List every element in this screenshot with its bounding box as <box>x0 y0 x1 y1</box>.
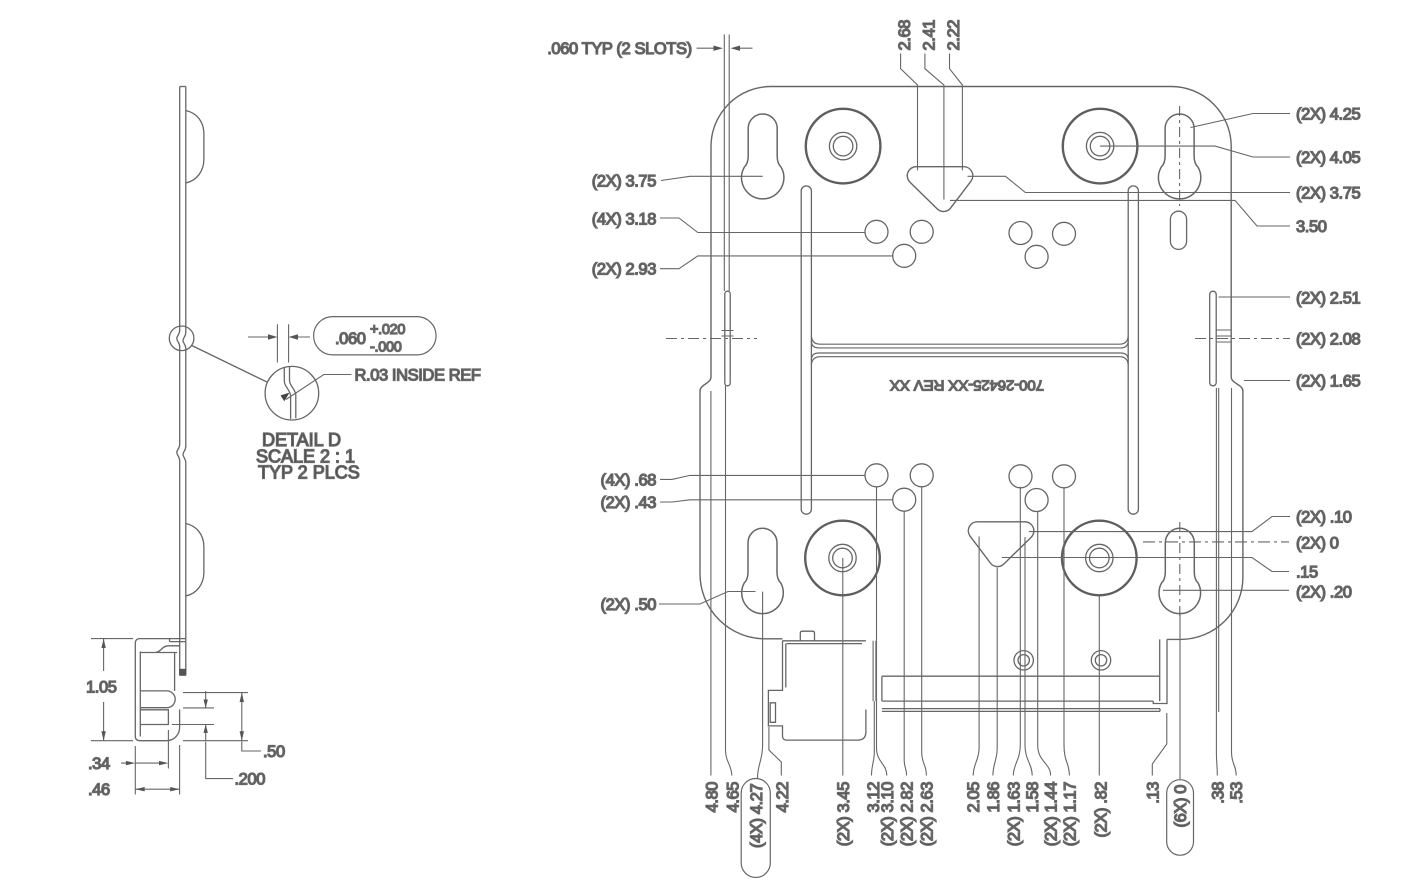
grommet bottom-right outer ring <box>1062 521 1137 596</box>
dim .50 leader <box>242 742 261 752</box>
svg-text:(2X) 1.63: (2X) 1.63 <box>1005 782 1023 846</box>
rivet left <box>1014 651 1033 670</box>
small hole A2 <box>910 220 933 243</box>
svg-text:(2X) .10: (2X) .10 <box>1296 509 1352 527</box>
bottom box notch inner rect <box>770 703 775 723</box>
svg-text:1.58: 1.58 <box>1024 782 1042 813</box>
grommet bottom-right inner circles <box>1086 544 1113 571</box>
svg-text:(2X) 2.51: (2X) 2.51 <box>1296 290 1360 308</box>
svg-text:R.03 INSIDE REF: R.03 INSIDE REF <box>355 367 481 385</box>
detail dim .060 extension lines <box>277 324 288 362</box>
svg-text:(2X) 3.75: (2X) 3.75 <box>1296 185 1360 203</box>
bottom leader 4.65 <box>726 386 732 776</box>
bottom leader (6X) 0 <box>1179 612 1181 779</box>
small hole C1 <box>865 464 888 487</box>
svg-text:4.80: 4.80 <box>704 782 722 813</box>
svg-text:(2X) 0: (2X) 0 <box>1296 535 1339 553</box>
dim 1.05 extension lines <box>91 639 133 741</box>
bottom leader (2X) 3.45 <box>842 558 844 776</box>
dim .46 extension line right <box>179 745 181 795</box>
leader (2X) .20 <box>1163 589 1289 591</box>
svg-text:700-26425-XX REV XX: 700-26425-XX REV XX <box>890 377 1044 394</box>
dim .34 line and arrows <box>121 762 160 764</box>
grommet bottom-left outer ring <box>805 521 880 596</box>
bottom leader (2X) 2.63 <box>922 487 927 776</box>
svg-text:(2X) 3.45: (2X) 3.45 <box>835 782 853 846</box>
bottom leader (2X) 1.63 <box>1013 487 1020 776</box>
grommet top-right outer ring <box>1063 109 1138 184</box>
small hole A4 <box>1053 222 1076 245</box>
svg-text:.38: .38 <box>1209 782 1227 804</box>
bottom leader 2.05 <box>973 537 979 776</box>
balloon leader line <box>192 346 267 383</box>
svg-text:.13: .13 <box>1144 782 1162 804</box>
svg-text:2.41: 2.41 <box>920 20 938 51</box>
keyhole slot bottom-left <box>742 528 784 613</box>
side view plate left line with jogs <box>177 87 180 675</box>
right slot tick marks <box>1216 330 1231 342</box>
detail D balloon circle <box>169 326 194 351</box>
svg-text:.200: .200 <box>235 771 266 789</box>
svg-text:.15: .15 <box>1296 564 1318 582</box>
svg-text:(2X) 2.63: (2X) 2.63 <box>918 782 936 846</box>
svg-text:+.020: +.020 <box>370 322 405 338</box>
.060 TYP leader and arrows <box>697 47 753 49</box>
bottom box bump tab <box>800 631 814 641</box>
right .060 slot <box>1210 291 1217 386</box>
leader (4X) .68 <box>660 475 865 479</box>
bottom box inner left line <box>785 644 787 688</box>
grommet bottom-left inner circles <box>829 544 856 571</box>
rivet right <box>1091 651 1110 670</box>
svg-text:.060 TYP (2 SLOTS): .060 TYP (2 SLOTS) <box>547 40 691 58</box>
detail D circle <box>265 366 319 420</box>
bottom leader (2X) 3.10 <box>877 487 887 776</box>
keyhole slot top-left <box>742 114 784 199</box>
foot top step <box>168 639 186 646</box>
svg-text:(2X) 1.17: (2X) 1.17 <box>1061 782 1079 846</box>
svg-text:(2X) 1.65: (2X) 1.65 <box>1296 373 1360 391</box>
svg-text:(2X) 2.93: (2X) 2.93 <box>592 261 656 279</box>
bottom label (6X) 0 stadium <box>1167 780 1194 856</box>
side view plate right line with jogs <box>183 87 186 675</box>
bottom leader (4X) 4.27 <box>758 592 763 778</box>
keyhole slot top-right <box>1158 114 1200 199</box>
bottom leader 4.80 <box>710 391 712 776</box>
small hole C2 <box>910 464 933 487</box>
leader (2X) 4.05 <box>1100 146 1290 157</box>
main plate outline <box>700 87 1243 640</box>
svg-text:(2X) 1.44: (2X) 1.44 <box>1043 782 1061 846</box>
bottom leader .53 <box>1232 388 1237 776</box>
svg-text:2.05: 2.05 <box>965 782 983 813</box>
small hole A3 <box>1009 222 1032 245</box>
leader (2X) 2.93 <box>660 256 893 269</box>
dim 1.05 line <box>103 639 105 741</box>
svg-text:4.22: 4.22 <box>774 782 792 813</box>
keyhole centerline vertical bottom-right <box>1179 522 1181 620</box>
svg-text:1.86: 1.86 <box>985 782 1003 813</box>
small hole B2 <box>1025 245 1048 268</box>
svg-text:(2X) 2.08: (2X) 2.08 <box>1296 331 1360 349</box>
grommet top-left inner circles <box>829 132 856 159</box>
small hole C3 <box>1009 465 1032 488</box>
small hole D2 <box>1025 489 1048 512</box>
foot inner lip curve <box>140 646 177 691</box>
grommet boss bump bottom (side view) <box>186 524 204 597</box>
bottom leader 1.86 <box>993 568 997 776</box>
H-frame right rail <box>1128 186 1138 514</box>
leader (2X) .43 <box>660 500 893 502</box>
bottom box outline <box>768 641 866 740</box>
plate bottom tip cap <box>179 669 186 676</box>
leader 2.22 <box>950 54 963 171</box>
bottom leader (2X) .82 <box>1098 596 1100 776</box>
svg-text:.34: .34 <box>88 755 110 773</box>
leader (2X) 2.51 <box>1219 296 1291 298</box>
dim .200 leader <box>206 742 233 779</box>
svg-text:(6X) 0: (6X) 0 <box>1172 785 1190 828</box>
bottom inner edge line <box>882 675 1160 677</box>
bottom band lines <box>882 676 1160 711</box>
svg-text:(2X) 4.05: (2X) 4.05 <box>1296 149 1360 167</box>
leader .15 <box>1002 558 1289 572</box>
grommet top-left outer ring <box>806 109 881 184</box>
leader (2X) 2.08 dash-dot <box>666 338 757 340</box>
leader (2X) 4.25 <box>1191 114 1291 128</box>
svg-text:.46: .46 <box>88 781 110 799</box>
svg-text:1.05: 1.05 <box>86 679 117 697</box>
bottom box top edge <box>783 641 866 644</box>
svg-text:4.65: 4.65 <box>724 782 742 813</box>
bottom label (4X) 4.27 stadium <box>741 779 770 878</box>
left slot tick marks <box>722 331 734 337</box>
svg-text:(4X) 3.18: (4X) 3.18 <box>592 210 656 228</box>
svg-text:-.000: -.000 <box>370 340 402 356</box>
svg-text:(2X) .82: (2X) .82 <box>1093 782 1111 838</box>
small hole D1 <box>893 488 916 511</box>
triangle cutout bottom <box>968 522 1034 567</box>
dim .46 line and arrows <box>135 788 179 790</box>
leader (2X) .10 <box>1029 517 1290 532</box>
triangle cutout top <box>907 167 973 212</box>
dim .50 extension lines <box>183 693 248 741</box>
dim .200 arrows outside <box>205 691 207 742</box>
svg-text:.50: .50 <box>263 743 285 761</box>
svg-text:TYP 2 PLCS: TYP 2 PLCS <box>258 463 360 483</box>
leader (2X) .50 <box>659 592 756 605</box>
grommet top-right inner circles <box>1086 132 1113 159</box>
H-frame left rail <box>801 186 811 514</box>
small hole C4 <box>1053 465 1076 488</box>
R.03 leader line <box>286 375 352 400</box>
bottom right step <box>1153 639 1167 703</box>
dim .50 line and arrows <box>241 693 243 741</box>
detail section line left pair <box>284 368 290 420</box>
bottom leader .38 <box>1216 388 1218 776</box>
bottom leader 3.12 <box>872 701 875 775</box>
slot width extension lines top <box>724 35 729 292</box>
dim 1.05 arrows <box>101 639 105 648</box>
leader 3.50 <box>950 200 1290 226</box>
svg-text:(2X) 3.75: (2X) 3.75 <box>592 173 656 191</box>
leader (2X) 1.65 <box>1244 380 1290 382</box>
svg-text:2.68: 2.68 <box>896 20 914 51</box>
svg-text:(4X) 4.27: (4X) 4.27 <box>748 783 766 847</box>
svg-text:(2X) 4.25: (2X) 4.25 <box>1296 106 1360 124</box>
plate top cap <box>180 86 186 88</box>
svg-text:(4X) .68: (4X) .68 <box>601 471 657 489</box>
foot middle tongue <box>140 691 175 708</box>
left .060 slot <box>725 291 730 386</box>
svg-text:(2X) 2.82: (2X) 2.82 <box>899 782 917 846</box>
svg-text:(2X) 3.10: (2X) 3.10 <box>879 782 897 846</box>
bottom leader (2X) 1.44 <box>1038 512 1051 776</box>
svg-text:.53: .53 <box>1228 782 1246 804</box>
tolerance stadium border <box>314 317 437 355</box>
keyhole slot bottom-right <box>1159 528 1201 613</box>
small oval slot <box>1170 211 1186 249</box>
dim .200 extension lines <box>172 708 214 725</box>
keyhole centerline vertical top-right <box>1179 106 1181 206</box>
R.03 arrow <box>281 393 290 402</box>
svg-text:3.50: 3.50 <box>1296 218 1327 236</box>
leader 2.68 <box>901 54 918 171</box>
detail dim .060 arrows <box>248 336 310 338</box>
leader 2.41 <box>925 54 944 200</box>
dim .34 extension lines <box>135 730 168 795</box>
svg-text:2.22: 2.22 <box>945 20 963 51</box>
bottom leader 4.22 <box>769 727 781 776</box>
foot slot rectangle <box>140 710 168 725</box>
bottom leader .13 <box>1152 713 1167 776</box>
leader (2X) 0 dash-dot datum <box>1143 541 1289 543</box>
svg-text:(2X) .50: (2X) .50 <box>601 596 657 614</box>
grommet boss bump top (side view) <box>186 111 204 184</box>
leader (4X) 3.18 <box>660 218 865 233</box>
H-frame crossbar <box>811 336 1128 365</box>
svg-text:(2X) .43: (2X) .43 <box>601 494 657 512</box>
svg-text:(2X) .20: (2X) .20 <box>1296 584 1352 602</box>
leader (2X) 3.75 left <box>661 176 763 180</box>
bottom leader 1.58 <box>1025 537 1032 776</box>
bottom leader (2X) 1.17 <box>1064 488 1069 776</box>
foot inner left line <box>139 652 141 737</box>
bottom box verticals pair <box>873 641 876 701</box>
bottom leader (2X) 2.82 <box>904 511 906 775</box>
svg-text:.060: .060 <box>335 330 366 348</box>
leader (2X) 3.75 right <box>968 176 1291 192</box>
small hole A1 <box>865 220 888 243</box>
foot outline (side view bottom hook) <box>135 639 186 741</box>
small hole B1 <box>893 244 916 267</box>
